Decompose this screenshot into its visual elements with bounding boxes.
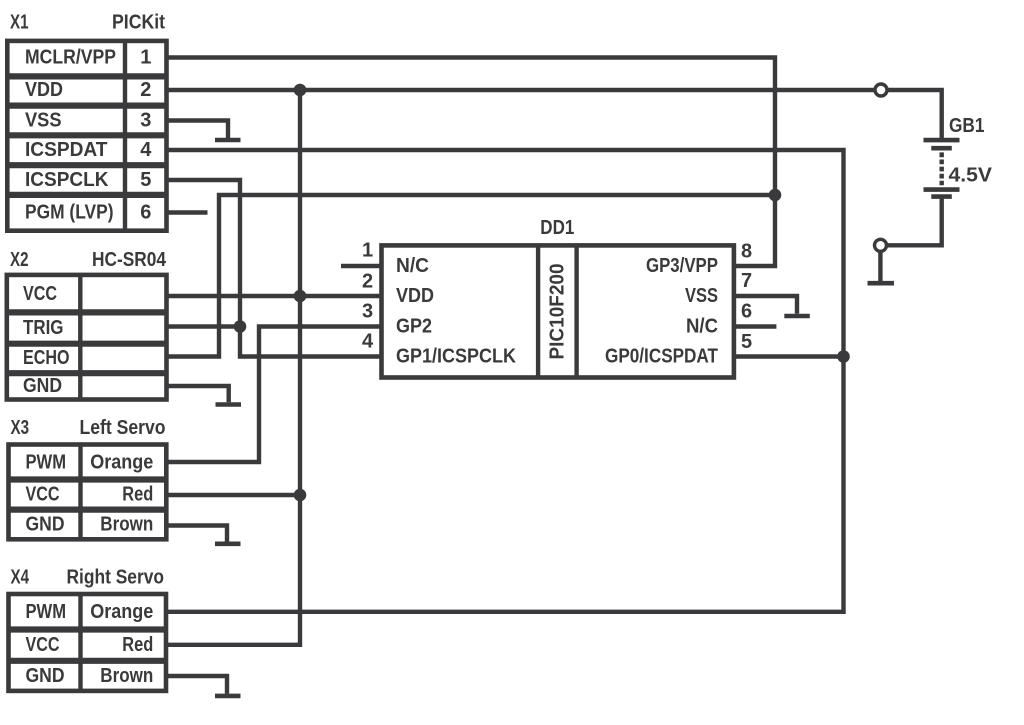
connector X2 HC-SR04 [7, 249, 167, 400]
svg-text:X4: X4 [11, 567, 30, 589]
svg-text:4: 4 [140, 139, 152, 161]
svg-text:GND: GND [26, 514, 65, 536]
ground at X3 GND [215, 541, 241, 546]
svg-text:PWM: PWM [26, 452, 67, 474]
connector X1 PICKit [7, 12, 166, 231]
svg-text:4: 4 [362, 330, 374, 352]
svg-text:PWM: PWM [26, 601, 67, 623]
svg-text:X2: X2 [10, 249, 29, 271]
svg-text:8: 8 [741, 241, 752, 263]
svg-text:PGM (LVP): PGM (LVP) [25, 202, 114, 224]
wire ICSPCLK: X1 pin5 to DD1 pin4 GP1 [167, 180, 382, 357]
terminal circle GND [875, 239, 887, 251]
wire PGM stub: X1 pin6 [167, 210, 208, 214]
svg-text:5: 5 [140, 169, 151, 191]
svg-text:TRIG: TRIG [23, 317, 64, 339]
svg-text:Left Servo: Left Servo [80, 417, 166, 439]
wire DD1 pin1 N/C stub [341, 264, 382, 268]
svg-text:6: 6 [140, 202, 151, 224]
wire DD1 pin7 VSS to ground [734, 296, 797, 314]
junction VDD at X3 VCC [294, 489, 307, 502]
svg-text:Orange: Orange [90, 601, 153, 623]
svg-text:PIC10F200: PIC10F200 [547, 264, 569, 360]
ground at X1 VSS [215, 138, 241, 143]
svg-text:GP2: GP2 [396, 316, 432, 338]
junction ICSPDAT/GP0 [837, 350, 850, 363]
wire GP2: DD1 pin3 to X3 PWM [166, 327, 381, 463]
svg-text:X1: X1 [10, 12, 29, 34]
svg-text:Red: Red [122, 484, 153, 506]
svg-text:ICSPDAT: ICSPDAT [25, 139, 108, 161]
wire VDD net: X2 VCC to DD1 pin2 [167, 294, 382, 298]
ground at X2 GND [216, 402, 242, 407]
junction VDD rail top [294, 84, 307, 97]
ground at X4 GND [215, 694, 241, 699]
battery GB1 [924, 140, 960, 197]
svg-text:Orange: Orange [90, 452, 153, 474]
svg-text:GND: GND [23, 375, 62, 397]
svg-text:VSS: VSS [25, 110, 62, 132]
wire VDD: X1 pin2 to battery GB1 plus [167, 90, 942, 138]
svg-text:Red: Red [122, 634, 153, 656]
svg-text:VDD: VDD [25, 79, 63, 101]
wire battery terminal stub to ground [878, 249, 882, 281]
svg-text:Brown: Brown [100, 514, 153, 536]
connector X3 Left Servo [9, 417, 167, 540]
svg-text:HC-SR04: HC-SR04 [92, 249, 167, 271]
ground at battery minus [868, 281, 895, 286]
junction TRIG/ICSPCLK [234, 320, 247, 333]
svg-text:GP3/VPP: GP3/VPP [646, 255, 718, 277]
wire battery GB1 minus to ground terminal [883, 199, 942, 246]
svg-text:Brown: Brown [100, 665, 153, 687]
wire DD1 pin6 N/C stub [734, 324, 776, 328]
svg-text:7: 7 [741, 270, 752, 292]
svg-text:GND: GND [26, 665, 65, 687]
wire MCLR/VPP: X1 pin1 to DD1 pin8 GP3/VPP [167, 58, 776, 267]
wire X4 GND to ground [166, 676, 227, 694]
svg-text:3: 3 [140, 110, 151, 132]
svg-text:MCLR/VPP: MCLR/VPP [25, 47, 116, 69]
svg-text:VCC: VCC [23, 283, 57, 305]
wire DD1 pin5 GP0 stub to ICSPDAT riser [734, 354, 844, 358]
svg-text:VCC: VCC [26, 484, 60, 506]
svg-text:1: 1 [362, 240, 373, 262]
svg-text:1: 1 [140, 47, 151, 69]
svg-text:2: 2 [140, 79, 151, 101]
IC DD1 PIC10F200 [362, 217, 752, 378]
wire VSS: X1 pin3 to ground [167, 121, 229, 139]
junction VDD at X2 VCC [294, 290, 307, 303]
svg-text:3: 3 [362, 300, 373, 322]
svg-text:X3: X3 [11, 417, 30, 439]
junction ECHO/MCLR riser [769, 189, 782, 202]
svg-text:2: 2 [362, 271, 373, 293]
svg-text:GB1: GB1 [949, 115, 985, 137]
svg-text:GP1/ICSPCLK: GP1/ICSPCLK [396, 346, 517, 368]
svg-text:ECHO: ECHO [23, 347, 70, 369]
svg-text:PICKit: PICKit [112, 12, 165, 34]
svg-text:N/C: N/C [686, 316, 718, 338]
svg-text:4.5V: 4.5V [949, 165, 993, 187]
svg-text:N/C: N/C [396, 255, 429, 277]
svg-text:GP0/ICSPDAT: GP0/ICSPDAT [605, 346, 718, 368]
ground at DD1 VSS [784, 314, 810, 319]
connector X4 Right Servo [9, 567, 167, 691]
svg-text:DD1: DD1 [540, 217, 574, 239]
svg-text:VCC: VCC [26, 634, 60, 656]
svg-text:5: 5 [741, 331, 752, 353]
wire VDD rail down to X4 VCC [166, 90, 300, 645]
wire X3 GND to ground [166, 526, 227, 542]
wire X3 VCC to VDD rail [166, 493, 300, 497]
wire ECHO: X2 ECHO to GP3 riser [167, 195, 776, 357]
svg-text:VSS: VSS [685, 285, 718, 307]
terminal circle VDD [875, 84, 887, 96]
wire X2 GND to ground [167, 386, 229, 402]
svg-text:6: 6 [741, 301, 752, 323]
svg-text:ICSPCLK: ICSPCLK [25, 169, 109, 191]
wire TRIG: X2 TRIG to ICSPCLK riser [167, 324, 241, 328]
wire ICSPDAT: X1 pin4 to DD1 pin5 and X4 PWM [166, 150, 843, 612]
svg-text:VDD: VDD [396, 285, 434, 307]
svg-text:Right Servo: Right Servo [67, 567, 165, 589]
